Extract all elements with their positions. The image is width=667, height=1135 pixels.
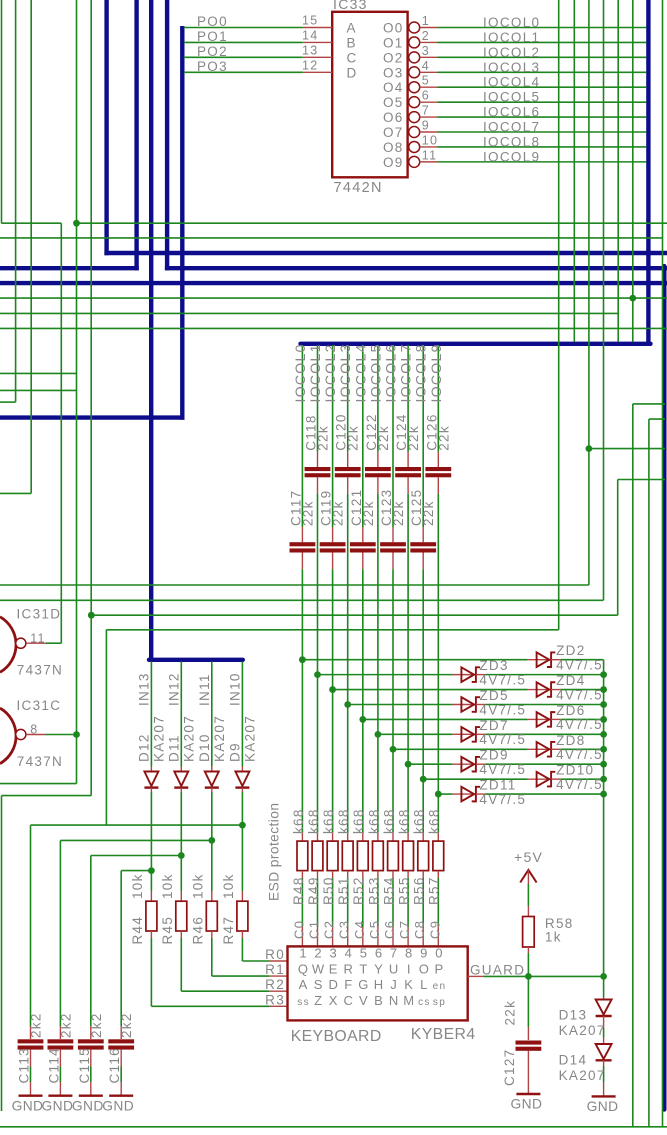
svg-text:E: E	[329, 961, 339, 976]
svg-text:IOCOL6: IOCOL6	[383, 343, 399, 402]
svg-text:O: O	[419, 961, 430, 976]
svg-text:10k: 10k	[221, 873, 236, 899]
svg-text:2k2: 2k2	[58, 1012, 73, 1038]
svg-text:J: J	[390, 977, 398, 992]
svg-text:A: A	[299, 977, 309, 992]
svg-text:GND: GND	[102, 1099, 134, 1114]
svg-text:O5: O5	[383, 95, 404, 110]
svg-text:R53: R53	[366, 876, 381, 905]
svg-text:IN13: IN13	[136, 672, 151, 706]
svg-text:IOCOL0: IOCOL0	[483, 15, 540, 30]
svg-text:IOCOL1: IOCOL1	[307, 343, 323, 402]
svg-text:R2: R2	[265, 977, 285, 992]
svg-text:D10: D10	[197, 733, 212, 762]
svg-text:IOCOL1: IOCOL1	[483, 30, 540, 45]
svg-text:C127: C127	[502, 1049, 517, 1086]
svg-text:4V7/.5: 4V7/.5	[556, 777, 603, 792]
svg-text:KA207: KA207	[242, 715, 257, 762]
svg-text:IN11: IN11	[197, 673, 212, 706]
svg-text:O6: O6	[383, 110, 404, 125]
svg-text:22k: 22k	[316, 425, 331, 451]
svg-text:C115: C115	[77, 1047, 92, 1083]
svg-text:4V7/.5: 4V7/.5	[479, 672, 526, 687]
svg-text:GND: GND	[12, 1099, 44, 1114]
svg-text:O7: O7	[383, 125, 404, 140]
svg-text:1: 1	[299, 945, 308, 960]
svg-text:k68: k68	[412, 808, 427, 834]
svg-text:4V7/.5: 4V7/.5	[479, 732, 526, 747]
svg-text:ZD10: ZD10	[556, 763, 594, 778]
svg-text:W: W	[312, 961, 326, 976]
svg-text:KA207: KA207	[559, 1068, 606, 1083]
svg-text:k68: k68	[336, 808, 351, 834]
svg-text:C9: C9	[427, 920, 442, 939]
svg-text:H: H	[374, 977, 385, 992]
svg-text:B: B	[374, 993, 384, 1008]
svg-text:4V7/.5: 4V7/.5	[556, 658, 603, 673]
svg-text:O0: O0	[383, 21, 404, 36]
svg-text:22k: 22k	[436, 425, 451, 451]
svg-text:IOCOL5: IOCOL5	[367, 343, 383, 402]
svg-text:R49: R49	[306, 876, 321, 905]
svg-text:14: 14	[302, 28, 319, 42]
svg-text:X: X	[329, 993, 339, 1008]
svg-text:R55: R55	[397, 876, 412, 905]
svg-text:R46: R46	[190, 916, 205, 945]
svg-text:22k: 22k	[300, 500, 315, 526]
svg-text:22k: 22k	[391, 500, 406, 526]
svg-text:ZD4: ZD4	[556, 673, 585, 688]
svg-text:2: 2	[422, 29, 430, 43]
svg-text:9: 9	[422, 119, 430, 133]
svg-text:IOCOL7: IOCOL7	[398, 343, 414, 402]
svg-text:2: 2	[314, 945, 323, 960]
svg-text:K: K	[404, 977, 414, 992]
svg-text:D11: D11	[166, 734, 181, 762]
svg-text:22k: 22k	[421, 500, 436, 526]
svg-text:D9: D9	[227, 742, 242, 762]
svg-text:IOCOL4: IOCOL4	[352, 343, 368, 402]
svg-text:22k: 22k	[502, 1000, 517, 1026]
svg-text:13: 13	[302, 43, 319, 57]
svg-text:k68: k68	[306, 808, 321, 834]
svg-text:IOCOL9: IOCOL9	[483, 149, 540, 164]
svg-text:cs: cs	[418, 997, 431, 1008]
svg-text:2k2: 2k2	[29, 1012, 44, 1038]
svg-text:5: 5	[360, 945, 369, 960]
svg-text:KA207: KA207	[559, 1023, 606, 1038]
svg-text:12: 12	[302, 58, 319, 72]
svg-text:22k: 22k	[376, 425, 391, 451]
svg-text:IOCOL9: IOCOL9	[428, 343, 444, 402]
svg-text:IOCOL2: IOCOL2	[322, 343, 338, 402]
svg-text:I: I	[407, 961, 412, 976]
svg-text:1k: 1k	[545, 930, 562, 945]
svg-text:C5: C5	[367, 920, 382, 939]
svg-text:IOCOL5: IOCOL5	[483, 90, 540, 105]
svg-text:O1: O1	[383, 35, 404, 50]
svg-text:C8: C8	[412, 920, 427, 939]
svg-text:D12: D12	[136, 733, 151, 762]
svg-text:4V7/.5: 4V7/.5	[479, 702, 526, 717]
svg-text:ZD8: ZD8	[556, 733, 585, 748]
svg-text:2k2: 2k2	[89, 1012, 104, 1038]
svg-text:C0: C0	[291, 920, 306, 939]
svg-text:KYBER4: KYBER4	[411, 1026, 476, 1043]
svg-text:22k: 22k	[346, 425, 361, 451]
svg-text:T: T	[359, 961, 368, 976]
svg-text:KA207: KA207	[181, 715, 196, 762]
svg-text:GND: GND	[587, 1099, 619, 1114]
svg-text:k68: k68	[381, 808, 396, 834]
svg-text:IC33: IC33	[333, 0, 368, 12]
svg-text:22k: 22k	[331, 500, 346, 526]
svg-text:R50: R50	[321, 876, 336, 905]
svg-text:O9: O9	[383, 155, 404, 170]
svg-text:IOCOL4: IOCOL4	[483, 75, 540, 90]
svg-text:10k: 10k	[130, 873, 145, 899]
svg-text:C: C	[344, 993, 355, 1008]
svg-text:IOCOL3: IOCOL3	[337, 343, 353, 402]
svg-text:P: P	[435, 961, 445, 976]
svg-text:Y: Y	[374, 961, 384, 976]
svg-text:5: 5	[422, 74, 430, 88]
svg-text:R3: R3	[265, 992, 285, 1007]
svg-text:4V7/.5: 4V7/.5	[556, 687, 603, 702]
svg-text:0: 0	[435, 945, 444, 960]
svg-text:C1: C1	[307, 920, 322, 939]
svg-text:F: F	[344, 977, 353, 992]
svg-text:C3: C3	[337, 920, 352, 939]
svg-text:7: 7	[422, 104, 430, 118]
svg-text:en: en	[433, 981, 447, 992]
svg-text:C4: C4	[352, 920, 367, 939]
svg-text:G: G	[358, 977, 369, 992]
svg-text:R0: R0	[265, 947, 285, 962]
svg-text:C2: C2	[322, 920, 337, 939]
svg-text:8: 8	[30, 723, 38, 737]
svg-text:7437N: 7437N	[17, 754, 63, 769]
svg-text:M: M	[403, 993, 415, 1008]
svg-text:22k: 22k	[361, 500, 376, 526]
svg-text:15: 15	[302, 14, 319, 28]
svg-text:ZD9: ZD9	[479, 748, 508, 763]
svg-text:k68: k68	[397, 808, 412, 834]
svg-text:R54: R54	[381, 876, 396, 905]
svg-text:8: 8	[405, 945, 414, 960]
svg-text:O2: O2	[383, 50, 404, 65]
svg-text:k68: k68	[366, 808, 381, 834]
svg-text:22k: 22k	[406, 425, 421, 451]
svg-text:IN10: IN10	[227, 672, 242, 706]
svg-text:PO3: PO3	[197, 59, 228, 74]
svg-text:IOCOL3: IOCOL3	[483, 60, 540, 75]
svg-text:R48: R48	[291, 876, 306, 905]
svg-text:3: 3	[330, 945, 339, 960]
svg-text:1: 1	[422, 14, 430, 28]
svg-text:D: D	[328, 977, 339, 992]
svg-text:R57: R57	[427, 876, 442, 905]
svg-text:9: 9	[420, 945, 429, 960]
svg-text:D14: D14	[559, 1053, 588, 1068]
svg-text:R: R	[344, 961, 355, 976]
svg-text:R56: R56	[412, 876, 427, 905]
svg-text:Q: Q	[298, 961, 309, 976]
svg-text:Z: Z	[314, 993, 323, 1008]
svg-text:k68: k68	[291, 808, 306, 834]
svg-text:4: 4	[345, 945, 354, 960]
svg-text:6: 6	[422, 89, 430, 103]
svg-text:10k: 10k	[160, 873, 175, 899]
svg-text:IOCOL6: IOCOL6	[483, 105, 540, 120]
svg-text:11: 11	[422, 148, 438, 162]
svg-text:+5V: +5V	[514, 849, 543, 865]
svg-text:PO0: PO0	[197, 14, 228, 29]
svg-text:7437N: 7437N	[17, 663, 63, 678]
svg-text:4V7/.5: 4V7/.5	[556, 717, 603, 732]
svg-text:ZD6: ZD6	[556, 703, 585, 718]
svg-text:U: U	[389, 961, 400, 976]
svg-text:D13: D13	[559, 1008, 588, 1023]
svg-text:R47: R47	[221, 916, 236, 945]
svg-text:C6: C6	[382, 920, 397, 939]
svg-text:IOCOL8: IOCOL8	[483, 134, 540, 149]
svg-text:R45: R45	[160, 916, 175, 945]
svg-text:PO2: PO2	[197, 44, 228, 59]
svg-text:10: 10	[422, 133, 439, 147]
svg-text:L: L	[420, 977, 429, 992]
svg-text:k68: k68	[321, 808, 336, 834]
svg-text:IC31C: IC31C	[17, 698, 62, 713]
svg-text:C: C	[347, 50, 358, 65]
svg-text:6: 6	[375, 945, 384, 960]
svg-text:GND: GND	[41, 1099, 73, 1114]
svg-text:ESD protection: ESD protection	[267, 803, 282, 901]
svg-text:ZD5: ZD5	[479, 688, 508, 703]
svg-text:7: 7	[390, 945, 399, 960]
svg-text:ss: ss	[297, 997, 310, 1008]
svg-text:4V7/.5: 4V7/.5	[556, 747, 603, 762]
svg-text:IC31D: IC31D	[17, 607, 62, 622]
svg-text:IOCOL8: IOCOL8	[413, 343, 429, 402]
svg-text:10k: 10k	[190, 873, 205, 899]
svg-text:V: V	[359, 993, 369, 1008]
svg-text:GUARD: GUARD	[470, 963, 525, 978]
svg-text:IOCOL0: IOCOL0	[292, 343, 308, 402]
svg-text:GND: GND	[510, 1097, 542, 1112]
svg-text:R51: R51	[336, 876, 351, 905]
svg-text:C7: C7	[397, 920, 412, 939]
svg-text:KA207: KA207	[151, 715, 166, 762]
svg-text:KEYBOARD: KEYBOARD	[291, 1028, 382, 1045]
svg-text:C113: C113	[17, 1047, 32, 1083]
svg-text:k68: k68	[427, 808, 442, 834]
svg-text:R1: R1	[265, 962, 285, 977]
svg-text:IOCOL7: IOCOL7	[483, 120, 540, 135]
svg-text:C114: C114	[46, 1047, 61, 1083]
svg-text:4: 4	[422, 59, 430, 73]
svg-text:ZD3: ZD3	[479, 658, 508, 673]
svg-text:KA207: KA207	[212, 715, 227, 762]
svg-text:2k2: 2k2	[119, 1012, 134, 1038]
svg-text:S: S	[314, 977, 324, 992]
svg-text:B: B	[347, 35, 357, 50]
svg-text:IOCOL2: IOCOL2	[483, 45, 540, 60]
svg-text:ZD7: ZD7	[479, 718, 508, 733]
svg-text:4V7/.5: 4V7/.5	[479, 762, 526, 777]
svg-text:D: D	[347, 65, 358, 80]
svg-text:GND: GND	[72, 1099, 104, 1114]
svg-text:R52: R52	[351, 876, 366, 905]
svg-text:ZD2: ZD2	[556, 643, 585, 658]
svg-text:O8: O8	[383, 140, 404, 155]
svg-text:sp: sp	[433, 997, 446, 1008]
svg-text:4V7/.5: 4V7/.5	[479, 792, 526, 807]
svg-text:3: 3	[422, 44, 430, 58]
svg-text:k68: k68	[351, 808, 366, 834]
svg-text:N: N	[389, 993, 400, 1008]
svg-text:O3: O3	[383, 65, 404, 80]
svg-text:R44: R44	[130, 916, 145, 945]
svg-text:C116: C116	[107, 1047, 122, 1083]
svg-text:PO1: PO1	[197, 29, 228, 44]
svg-text:ZD11: ZD11	[479, 778, 516, 793]
svg-text:IN12: IN12	[166, 672, 181, 706]
svg-text:A: A	[347, 21, 357, 36]
svg-text:O4: O4	[383, 80, 404, 95]
svg-text:11: 11	[30, 631, 46, 645]
svg-text:7442N: 7442N	[334, 180, 383, 196]
